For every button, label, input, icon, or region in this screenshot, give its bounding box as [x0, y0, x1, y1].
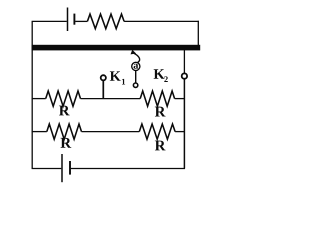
label K1 subscript 1 — [122, 79, 125, 85]
plug terminal below a — [133, 83, 137, 87]
wire row2 right — [175, 131, 185, 133]
jockey arrow head — [131, 50, 137, 55]
wire row2 left — [32, 131, 47, 133]
wire row1 right — [175, 98, 185, 100]
terminal K2 circle (right) — [182, 73, 187, 78]
label R row1 right — [155, 107, 166, 117]
terminal K1 circle — [101, 75, 106, 80]
resistor R row1 right zigzag — [140, 91, 174, 106]
rheostat resistor top zigzag — [87, 14, 124, 29]
wire bottom right segment — [71, 168, 185, 170]
label K1 "K" — [110, 71, 121, 80]
battery B1 long plate — [67, 8, 69, 32]
wire top left segment — [32, 20, 67, 22]
jockey curved stem — [134, 53, 140, 63]
wire row1 middle — [81, 98, 141, 100]
wire top-right vertical to slide wire — [197, 21, 199, 46]
node a circle — [132, 62, 140, 70]
wire left vertical — [31, 21, 33, 168]
wire bottom left segment — [32, 168, 62, 170]
battery B1 short plate — [73, 14, 75, 25]
wire right vertical upper (slide wire to terminal) — [183, 50, 185, 73]
wire node a to plug terminal — [135, 70, 137, 83]
wire row2 middle — [82, 131, 140, 133]
resistor R row1 left zigzag — [46, 91, 81, 106]
wire K1 lead down — [102, 81, 104, 99]
slide wire (thick bar) — [32, 45, 201, 51]
wire row1 left — [32, 98, 46, 100]
label K2 subscript 2 — [164, 76, 168, 82]
label R row2 left — [61, 138, 72, 148]
resistor R row2 right zigzag — [139, 124, 175, 139]
label R row2 right — [155, 141, 166, 151]
resistor R row2 left zigzag — [47, 124, 82, 139]
battery B2 long plate — [61, 154, 63, 182]
label K2 "K" — [154, 69, 165, 78]
label a (in node circle) — [134, 64, 139, 69]
wire top right segment — [124, 20, 199, 22]
wire battery to rheostat — [75, 20, 87, 22]
battery B2 short plate — [69, 161, 71, 175]
wire right vertical lower — [183, 79, 185, 169]
label R row1 left — [59, 106, 70, 116]
